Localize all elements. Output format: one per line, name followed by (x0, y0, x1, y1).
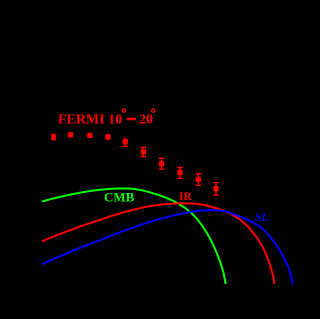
data point 3 (87, 133, 92, 138)
curve SL (blue) (42, 210, 293, 284)
data point 1 (51, 134, 56, 141)
data point 7 (159, 158, 165, 169)
svg-text:20: 20 (139, 113, 153, 128)
data point 9 (196, 174, 202, 186)
svg-text:FERMI 10: FERMI 10 (58, 113, 122, 128)
svg-text:SL: SL (255, 212, 268, 224)
data point 6 (141, 147, 147, 156)
svg-text:IR: IR (179, 191, 192, 203)
data point 8 (177, 168, 183, 179)
data point 10 (213, 183, 219, 195)
data point 2 (68, 132, 73, 138)
data point 5 (122, 138, 128, 147)
data point 4 (105, 134, 110, 141)
curve CMB (green) (42, 188, 226, 284)
svg-text:CMB: CMB (104, 190, 135, 205)
curve IR (red) (42, 203, 275, 284)
